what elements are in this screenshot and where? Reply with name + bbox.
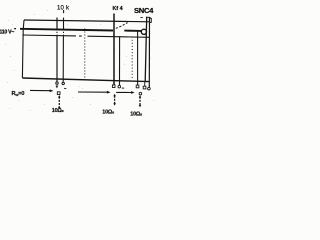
dimension arrow 3 shaft xyxy=(139,97,141,106)
wire tick near B2 xyxy=(122,87,124,89)
wire lead dash from left label xyxy=(14,28,16,30)
wire top-right connector bar xyxy=(146,16,151,18)
svg-text:10 k: 10 k xyxy=(57,5,70,11)
dimension arrow 1 head up xyxy=(58,95,61,98)
wire tick near connector xyxy=(140,17,143,19)
node terminal square C1 xyxy=(136,85,139,88)
svg-text:10Ωs: 10Ωs xyxy=(102,110,115,116)
wire vertical at x114 xyxy=(113,14,115,85)
junction blob circle xyxy=(141,29,146,34)
arrow right shaft xyxy=(116,91,131,93)
svg-text:Kf 4: Kf 4 xyxy=(113,6,123,12)
wire top-right short vertical xyxy=(150,18,152,22)
wire vertical at x57 lower xyxy=(56,36,58,82)
wire rail R2 (thick) xyxy=(20,29,113,31)
svg-text:SNC4: SNC4 xyxy=(134,6,154,15)
wire stub to square C2 xyxy=(144,81,146,86)
node terminal circle C3 xyxy=(148,87,151,90)
wire rail R3 dash xyxy=(79,35,82,37)
svg-text:10Ωs: 10Ωs xyxy=(130,112,143,118)
wire bottom rail xyxy=(22,78,149,82)
wire vertical at x145.2 xyxy=(145,17,147,81)
wire dashed curve switch arm xyxy=(116,23,128,29)
node small circle above dim arrow 3 xyxy=(139,92,142,95)
dimension arrow 1 head down xyxy=(58,107,61,110)
wire rail R3 segment b xyxy=(88,36,151,37)
wire tick near A2 xyxy=(64,87,66,89)
dimension arrow 3 head up xyxy=(139,95,142,98)
wire rail R2 after switch xyxy=(124,30,141,32)
arrowhead down at terminal A1 xyxy=(56,86,59,89)
wire left edge of box xyxy=(22,20,24,78)
dimension arrow 2 head up xyxy=(113,94,116,97)
arrowhead right 2 xyxy=(107,91,111,94)
wire vertical at x63.5 dashed middle xyxy=(63,29,65,36)
dimension arrow 3 head down xyxy=(139,105,142,108)
node small square under A xyxy=(57,92,60,95)
wire vertical at x63.5 upper xyxy=(63,18,65,29)
arrowhead right 1 xyxy=(50,89,54,92)
node terminal circle A2 xyxy=(62,82,64,84)
wire vertical at x137.6 xyxy=(137,31,139,85)
dimension arrow 2 head down xyxy=(113,103,116,106)
node terminal circle A1 xyxy=(56,82,58,84)
wire dotted vertical at x84.8 xyxy=(84,29,86,80)
wire vertical at x119.6 xyxy=(119,36,121,85)
svg-text:Rw=0: Rw=0 xyxy=(12,91,25,97)
wire vertical at x149.3 xyxy=(148,17,150,87)
wire rail R3 segment a xyxy=(22,34,76,37)
arrow from Rw label xyxy=(30,89,50,91)
svg-text:110 V~: 110 V~ xyxy=(0,30,14,36)
arrowhead right 3 xyxy=(131,91,135,94)
wire vertical at x57 dashed middle xyxy=(56,29,58,36)
svg-text:10Ωs: 10Ωs xyxy=(52,108,65,114)
dimension arrow 1 shaft xyxy=(58,97,60,108)
wire top rail R1 xyxy=(24,20,150,22)
node terminal circle B2 xyxy=(118,85,121,88)
dimension arrow 2 shaft xyxy=(114,96,116,104)
wire vertical at x63.5 lower xyxy=(62,36,64,82)
scan speckles xyxy=(5,10,154,111)
arrow middle shaft xyxy=(78,91,108,93)
wire vertical at x57 upper xyxy=(56,18,58,30)
wire label lead 10k xyxy=(63,10,65,13)
node terminal square C2 xyxy=(143,86,146,89)
wire dotted vertical at x133 xyxy=(131,37,133,80)
node terminal square B1 xyxy=(112,85,115,88)
